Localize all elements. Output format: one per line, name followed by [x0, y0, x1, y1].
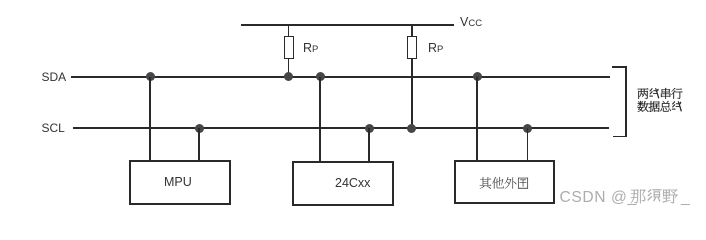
label 两线串行: [635, 86, 686, 103]
watermark CSDN: [560, 190, 637, 206]
resistor R2: [407, 36, 417, 59]
block MPU: [129, 160, 231, 205]
wire Vcc rail: [241, 24, 454, 26]
watermark trailing underscore: [681, 190, 690, 206]
watermark 那须野: [628, 186, 682, 209]
wire SDA to MPU: [149, 77, 151, 161]
node SCL-24Cxx junction: [365, 124, 374, 133]
label RP (R1): [303, 42, 318, 55]
label MPU: [164, 176, 192, 189]
Vcc label: [460, 16, 482, 29]
node SDA-MPU junction: [146, 72, 155, 81]
block 24Cxx: [292, 161, 394, 206]
label 数据总线: [635, 99, 686, 116]
node SDA-R1 junction: [284, 72, 293, 81]
node SDA-24Cxx junction: [316, 72, 325, 81]
bracket vertical: [625, 66, 627, 137]
wire R2 bottom through SDA to SCL: [411, 58, 413, 129]
node SCL-MPU junction: [195, 124, 204, 133]
wire SCL to 24Cxx: [368, 128, 370, 162]
wire SCL bus line: [73, 127, 609, 129]
label RP (R2): [428, 42, 443, 55]
wire R1 top stub: [288, 24, 290, 36]
wire R2 top stub: [411, 24, 413, 36]
node SCL-R2 junction: [407, 124, 416, 133]
node SCL-peripheral junction: [523, 124, 532, 133]
resistor R1: [284, 36, 294, 59]
wire SDA to peripheral: [476, 77, 478, 161]
label 其他外围: [477, 175, 533, 193]
wire SDA to 24Cxx: [319, 77, 321, 162]
label SCL: [42, 122, 65, 134]
node SDA-peripheral junction: [473, 72, 482, 81]
block peripheral (其他外围): [454, 160, 555, 204]
wire SCL to peripheral: [527, 128, 529, 161]
wire SDA bus line: [71, 76, 610, 78]
bracket bottom bar: [613, 136, 626, 138]
label SDA: [42, 71, 67, 83]
wire SCL to MPU: [198, 128, 200, 161]
bracket top bar: [612, 66, 627, 68]
label 24Cxx: [335, 177, 370, 190]
wire R1 bottom to SDA: [288, 58, 290, 78]
